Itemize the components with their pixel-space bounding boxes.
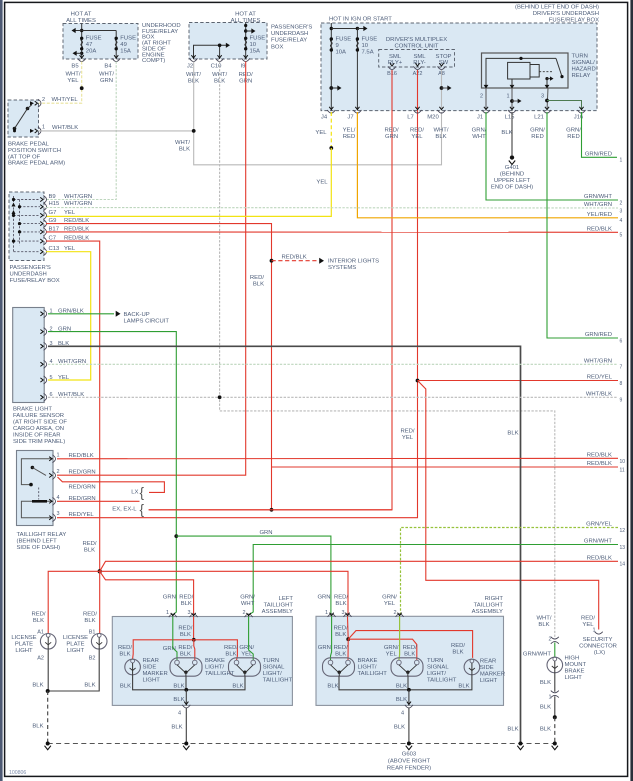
svg-text:WHT/BLK: WHT/BLK [52,125,78,131]
wire RED/BLK to left taillight pin 3 [100,571,194,616]
wire BLK from right taillight pin 4 to ground G603 [408,708,410,744]
relay pin 3 [52,514,55,522]
svg-text:TAILLIGHT: TAILLIGHT [263,678,293,684]
svg-text:3: 3 [57,511,60,517]
svg-text:(BEHIND LEFT END OF DASH): (BEHIND LEFT END OF DASH) [515,5,599,11]
taillight relay [17,451,54,526]
ground at sensor BLK wire [519,742,523,746]
wire GRN/WHT inside left taillight [249,617,254,661]
svg-text:BLK: BLK [180,632,191,638]
svg-text:4: 4 [178,711,181,717]
ground G603 [407,742,411,746]
svg-text:WHT/GRN: WHT/GRN [584,202,612,208]
svg-text:TAILLIGHT: TAILLIGHT [474,603,504,609]
pin 4 right taillight [405,705,413,708]
svg-text:H15: H15 [49,201,61,207]
svg-text:BRAKE PEDAL ARM): BRAKE PEDAL ARM) [8,161,65,167]
svg-text:BRAKE PEDAL: BRAKE PEDAL [8,142,50,148]
svg-text:YEL: YEL [64,210,76,216]
svg-text:MARKER: MARKER [480,672,505,678]
svg-text:4: 4 [57,495,60,501]
svg-text:L7: L7 [407,115,414,121]
svg-text:EX, EX-L: EX, EX-L [112,507,137,513]
pin J7 [353,110,361,113]
svg-text:RED/BLK: RED/BLK [69,453,94,459]
svg-text:10: 10 [620,459,626,465]
svg-text:HOT IN IGN OR START: HOT IN IGN OR START [329,16,392,22]
svg-text:2: 2 [243,610,246,616]
svg-text:BLK: BLK [396,683,407,689]
pin B17 [43,228,46,236]
svg-text:DRIVER'S UNDERDASH: DRIVER'S UNDERDASH [533,11,599,17]
svg-text:TURN: TURN [572,54,588,60]
svg-text:4: 4 [620,218,623,224]
svg-text:3: 3 [188,610,191,616]
brake light failure sensor [13,308,45,403]
pin A22 [414,66,422,69]
svg-text:FAILURE SENSOR: FAILURE SENSOR [13,413,64,419]
svg-text:GRN/: GRN/ [472,127,487,133]
wire WHT/BLK from switch pin 1 to node at J2 wire [39,130,194,132]
relay coil [21,501,53,517]
svg-text:GRN: GRN [100,78,113,84]
svg-text:RED/BLK: RED/BLK [587,227,612,233]
svg-text:8: 8 [620,381,623,387]
svg-text:2: 2 [620,200,623,206]
svg-text:TAILLIGHT: TAILLIGHT [264,603,294,609]
svg-text:RED: RED [531,134,543,140]
svg-text:10: 10 [362,43,369,49]
svg-text:GRN: GRN [318,645,331,651]
wire BLK below high mount brake light [554,673,556,692]
svg-text:RED/: RED/ [178,626,192,632]
svg-text:PLATE: PLATE [15,642,33,648]
svg-text:BLK: BLK [232,683,243,689]
svg-text:WHT/: WHT/ [65,72,80,78]
pin I9 [242,58,250,61]
svg-text:BLK: BLK [181,601,192,607]
svg-text:GRN/WHT: GRN/WHT [523,652,552,658]
svg-text:BLK: BLK [458,683,469,689]
relay pin 1 stub to L15 [511,79,513,86]
node right taillight BLK junction [407,688,411,692]
wire YEL/RED from J7 to right edge tag 4 [357,112,618,218]
svg-text:BLK: BLK [396,697,407,703]
internal bus of passenger box [13,196,15,252]
svg-text:REAR FENDER): REAR FENDER) [387,766,431,772]
sensor pin 4 [44,360,47,368]
pin C7 [43,237,46,245]
wire GRN/YEL from right edge tag 12 to right taillight pin 2 [401,528,619,617]
wire YEL from J4 to pin G7 line [330,112,332,148]
svg-text:BLK: BLK [33,618,44,624]
svg-text:BRAKE: BRAKE [205,658,225,664]
wire BLK bus inside right taillight [339,675,472,690]
svg-text:RED/: RED/ [451,643,465,649]
svg-text:100806: 100806 [9,770,26,776]
wire RED/BLK to right taillight pin 3 [100,571,348,616]
relay switch contact [556,58,562,76]
svg-text:YEL: YEL [58,375,70,381]
junction on WHT/YEL wire [80,86,84,90]
pin M20 [438,110,446,113]
svg-text:BLK: BLK [32,724,43,730]
svg-text:BRAKE: BRAKE [565,669,585,675]
svg-text:HOT AT: HOT AT [71,12,92,18]
svg-text:WHT: WHT [472,134,486,140]
svg-text:RELAY: RELAY [572,73,591,79]
svg-text:(AT TOP OF: (AT TOP OF [8,154,41,160]
svg-text:BLK: BLK [180,651,191,657]
svg-text:HOT AT: HOT AT [235,12,256,18]
node WHT/BLK junction with C10 wire [218,395,222,399]
svg-text:B4: B4 [104,64,112,70]
svg-text:(BEHIND: (BEHIND [500,172,524,178]
svg-text:(LX): (LX) [594,650,605,656]
svg-text:RED/GRN: RED/GRN [69,496,96,502]
wire GRN inside left taillight [173,617,177,661]
pin B16 [388,66,396,69]
svg-text:7.5A: 7.5A [362,50,374,56]
svg-text:TAILLIGHT RELAY: TAILLIGHT RELAY [17,532,67,538]
svg-text:TURN: TURN [427,658,443,664]
wire branch from L21 to pin J16 [545,99,549,103]
svg-text:GRN: GRN [317,595,330,601]
wire RED/GRN LX branch from relay pin 2 [58,477,165,492]
svg-text:LICENSE: LICENSE [63,635,88,641]
svg-text:RED/: RED/ [334,626,348,632]
pin 2 of brake pedal switch [38,99,41,107]
wire BLK from L15 to ground G401 [511,112,513,155]
wire RED/BLK from G9 down mid-page feeding tag 11 and EX wire [46,224,272,510]
svg-text:47: 47 [86,42,93,48]
page frame [0,0,3,781]
wire RED/GRN from I9 down to taillight relay pin 2 [57,62,246,476]
ground at license plate lights [46,742,50,746]
svg-text:RED: RED [567,134,579,140]
svg-text:TAILLIGHT: TAILLIGHT [358,671,388,677]
svg-text:I9: I9 [241,64,246,70]
svg-text:YEL: YEL [316,180,328,186]
relay pin 1 [52,455,55,463]
wire GRN/WHT from J1 to right edge tag 2 [486,112,618,200]
wire BLK from B2 to junction [48,649,99,691]
wire GRN from sensor pin 2 down to taillight assemblies [48,332,176,617]
ground G401 [510,155,514,159]
svg-text:CARGO AREA, ON: CARGO AREA, ON [13,426,64,432]
svg-text:CONTROL UNIT: CONTROL UNIT [395,44,439,50]
svg-text:PASSENGER'S: PASSENGER'S [271,25,312,31]
svg-text:J1: J1 [477,115,483,121]
svg-text:GRN: GRN [259,530,272,536]
wire RED/BLK to license plate light A1 [48,571,99,633]
brake light/taillight bulb (right) [323,658,355,676]
turn signal light/taillight bulb (right) [391,658,423,676]
svg-text:RED/: RED/ [224,645,238,651]
svg-text:DRIVER'S MULTIPLEX: DRIVER'S MULTIPLEX [386,37,447,43]
svg-text:L15: L15 [505,115,516,121]
relay pin 2 [52,471,55,479]
turn signal/hazard relay [482,53,569,88]
relay contact arm [21,459,53,485]
svg-text:BLK: BLK [179,147,190,153]
node GRN branch [174,534,178,538]
svg-text:SIGNAL: SIGNAL [427,665,449,671]
wire BLK bus inside left taillight [133,675,245,690]
svg-text:SML: SML [389,54,402,60]
svg-text:BLK: BLK [538,622,549,628]
svg-text:BLK: BLK [327,683,338,689]
svg-text:3: 3 [620,208,623,214]
pin G7 [43,211,46,219]
junction of switch WHT/BLK with J2 wire [192,129,196,133]
svg-text:GRN/: GRN/ [239,645,254,651]
node RED/BLK main junction [98,569,102,573]
node left taillight BLK junction [184,688,188,692]
svg-text:BLK: BLK [119,651,130,657]
svg-text:GRN/RED: GRN/RED [585,152,612,158]
svg-text:(ABOVE RIGHT: (ABOVE RIGHT [388,759,431,765]
svg-text:RED/: RED/ [334,595,348,601]
svg-text:YEL: YEL [411,134,423,140]
svg-text:1: 1 [325,610,328,616]
svg-text:WHT/: WHT/ [536,616,551,622]
svg-text:WHT/GRN: WHT/GRN [64,194,92,200]
svg-text:SIDE: SIDE [480,665,494,671]
svg-text:YEL/RED: YEL/RED [587,212,612,218]
wire WHT/GRN from H15 to right edge tag 3 [46,207,618,210]
svg-text:ASSEMBLY: ASSEMBLY [262,609,293,615]
svg-text:RED/: RED/ [410,127,424,133]
svg-text:9: 9 [336,43,339,49]
svg-text:LEFT: LEFT [279,596,294,602]
svg-text:1: 1 [548,695,551,701]
svg-text:MARKER: MARKER [143,671,168,677]
svg-text:UNDERDASH: UNDERDASH [10,272,47,278]
svg-text:PLATE: PLATE [66,642,84,648]
pin J1 [482,110,490,113]
svg-text:BLK: BLK [84,682,95,688]
svg-text:G7: G7 [49,210,57,216]
svg-text:SIGNAL/: SIGNAL/ [572,60,596,66]
wire RED/BLK from B17 to right edge tag 5 [46,231,618,233]
svg-text:HIGH: HIGH [565,656,580,662]
node high mount BLK [553,715,557,719]
svg-text:20A: 20A [86,49,97,55]
svg-text:BLK: BLK [120,683,131,689]
internal wire J2/C10 rail [194,45,227,59]
svg-text:GRN/WHT: GRN/WHT [584,539,613,545]
wire BLK from left taillight pin 4 to ground bus [185,708,187,744]
wire RED/GRN EX branch to B16 wire [149,509,392,511]
node license BLK junction [46,689,50,693]
svg-text:RED/: RED/ [31,611,45,617]
svg-text:GRN/: GRN/ [384,645,399,651]
svg-text:YEL: YEL [386,651,398,657]
svg-text:LAMPS CIRCUIT: LAMPS CIRCUIT [124,318,170,324]
svg-text:RED/: RED/ [83,611,97,617]
pin J16 [578,110,586,113]
svg-text:RED/YEL: RED/YEL [69,512,95,518]
wire WHT/BLK from sensor pin 6 to right edge tag 9 [48,396,618,398]
svg-text:RED/: RED/ [179,595,193,601]
pin B4 [112,58,120,61]
pin 1 of brake pedal switch [38,127,41,135]
svg-text:RIGHT: RIGHT [485,596,504,602]
wire GRN/RED from L21 to right edge tag 6 [547,112,618,338]
wire GRN/WHT to high mount brake light [554,643,556,658]
svg-text:A1: A1 [37,630,44,636]
svg-text:REAR: REAR [480,659,496,665]
svg-text:7: 7 [620,365,623,371]
svg-text:BLK: BLK [540,705,551,711]
svg-text:POSITION SWITCH: POSITION SWITCH [8,148,61,154]
svg-text:BLK: BLK [507,727,518,733]
svg-text:4: 4 [401,711,404,717]
svg-text:INSIDE OF REAR: INSIDE OF REAR [13,433,60,439]
sensor pin 5 [44,376,47,384]
svg-text:B5: B5 [71,64,79,70]
svg-text:RED/GRN: RED/GRN [69,470,96,476]
svg-text:LIGHT/: LIGHT/ [358,665,377,671]
svg-text:BRAKE LIGHT: BRAKE LIGHT [13,407,52,413]
relay coil [508,62,530,79]
wire GRN/YEL inside right taillight [398,616,401,660]
svg-text:FUSE: FUSE [250,36,266,42]
svg-text:YEL/: YEL/ [343,127,356,133]
svg-text:FUSE: FUSE [120,36,136,42]
svg-text:2: 2 [57,469,60,475]
svg-text:SIDE TRIM PANEL): SIDE TRIM PANEL) [13,439,65,445]
svg-text:RLY-: RLY- [413,60,425,66]
pin C13 [43,248,46,256]
ground bus [48,743,555,745]
svg-text:GRN/: GRN/ [240,595,255,601]
node and arrow on L15 wire [510,99,514,103]
svg-text:WHT/GRN: WHT/GRN [584,359,612,365]
svg-text:12: 12 [620,528,626,534]
wire fuse47 to fuse49 top rail [82,30,117,32]
svg-text:J16: J16 [574,115,584,121]
svg-text:RLY+: RLY+ [388,60,403,66]
svg-text:49: 49 [120,42,127,48]
wire RED/BLK from C7 down to license/taillight junction [46,241,100,571]
svg-text:HAZARD: HAZARD [572,67,596,73]
svg-text:GRN: GRN [385,134,398,140]
svg-text:LIGHT/: LIGHT/ [263,671,282,677]
svg-text:RED/: RED/ [403,645,417,651]
svg-text:SIDE OF DASH): SIDE OF DASH) [17,545,61,551]
svg-text:G603: G603 [402,752,417,758]
pin 4 left taillight [182,705,190,708]
brake light/taillight bulb (left) [170,658,202,676]
svg-text:RED: RED [343,134,355,140]
svg-text:SML: SML [413,54,426,60]
svg-text:GRN: GRN [163,595,176,601]
wire GRN/WHT from right edge tag 13 to left taillight pin 2 [249,545,618,617]
pin B5 [78,58,86,61]
wire RED/GRN from relay pin 4 to model brace [57,500,140,502]
svg-text:BLK: BLK [452,650,463,656]
svg-text:1: 1 [506,94,509,100]
pin A8 [438,66,446,69]
svg-text:GRN/: GRN/ [382,595,397,601]
svg-text:WHT/BLK: WHT/BLK [586,392,612,398]
svg-text:FUSE/RELAY BOX: FUSE/RELAY BOX [10,278,60,284]
svg-text:SECURITY: SECURITY [583,637,613,643]
rear side marker light (right) [464,659,480,675]
svg-text:LIGHT: LIGHT [67,648,85,654]
svg-text:BLK: BLK [32,682,43,688]
relay pin 4 [52,497,55,505]
fuse 10 15A [245,23,247,60]
svg-text:END OF DASH): END OF DASH) [491,185,533,191]
svg-text:15A: 15A [120,49,131,55]
svg-text:LIGHT/: LIGHT/ [427,671,446,677]
svg-text:GRN/YEL: GRN/YEL [586,522,613,528]
svg-text:WHT/: WHT/ [175,140,190,146]
svg-text:COMPT): COMPT) [142,58,165,64]
svg-text:BLK: BLK [540,680,551,686]
junction+arrow below fuse 9 [329,86,333,90]
svg-text:BLK: BLK [507,430,518,436]
svg-text:YEL: YEL [402,435,414,441]
svg-text:STOP: STOP [436,54,452,60]
internal top rail to fuse 10 [331,28,357,30]
relay pin 2 stub to J1 [485,88,487,111]
svg-text:5: 5 [620,233,623,239]
svg-text:RED/: RED/ [178,645,192,651]
svg-text:WHT/: WHT/ [433,127,448,133]
pin L15 [508,110,516,113]
svg-text:LICENSE: LICENSE [11,635,36,641]
svg-text:ASSEMBLY: ASSEMBLY [472,609,503,615]
relay pin 3 stub to L21 [547,88,548,111]
svg-text:UPPER LEFT: UPPER LEFT [494,178,531,184]
pin H15 [43,203,46,211]
svg-text:(BEHIND LEFT: (BEHIND LEFT [17,539,58,545]
svg-text:BLK: BLK [253,282,264,288]
svg-text:RED/: RED/ [400,428,414,434]
svg-text:YEL: YEL [67,78,79,84]
svg-text:GRN/RED: GRN/RED [585,332,612,338]
ground at left taillight [184,742,188,746]
svg-text:2: 2 [42,97,45,103]
svg-text:10A: 10A [336,50,347,56]
svg-text:BLK: BLK [540,727,551,733]
svg-text:RED/YEL: RED/YEL [587,375,613,381]
svg-text:J4: J4 [321,115,328,121]
node EX wire junction [270,508,274,512]
wire WHT/BLK net: J2 down, across to M20 [194,62,442,165]
svg-text:BLK: BLK [225,651,236,657]
pin L21 [543,110,551,113]
svg-text:B9: B9 [49,194,56,200]
svg-text:SYSTEMS: SYSTEMS [328,265,356,271]
wire BLK from sensor pin 3 across and down right side to ground bus [48,346,521,743]
svg-text:RED/: RED/ [118,645,132,651]
ground at high mount brake light [553,742,557,746]
svg-text:BLK: BLK [171,725,182,731]
svg-text:WHT/YEL: WHT/YEL [52,97,79,103]
svg-text:INTERIOR LIGHTS: INTERIOR LIGHTS [328,258,379,264]
fuse 49 15A [115,31,117,60]
svg-text:RED/: RED/ [82,541,96,547]
sensor pin 2 [44,328,47,336]
svg-text:SIGNAL: SIGNAL [263,665,285,671]
wire GRN/BLK from sensor pin 1 to back-up lamps circuit [48,313,114,315]
wire RED/BLK to license plate light B1 [99,571,101,633]
